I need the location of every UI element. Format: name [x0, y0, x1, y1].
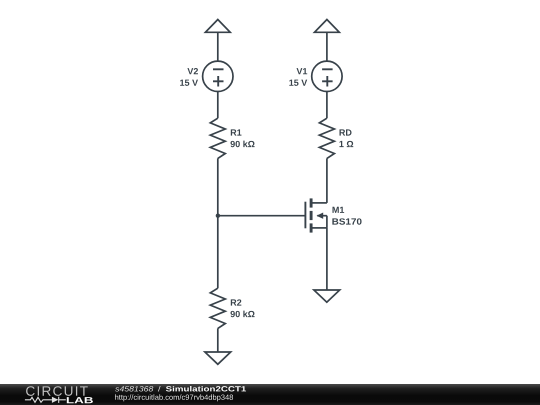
resistor R2	[210, 288, 225, 328]
logo CIRCUIT wordmark	[26, 386, 88, 396]
wire gate lead	[218, 215, 306, 217]
logo resistor-diode squiggle	[25, 397, 66, 403]
label R1	[231, 129, 242, 135]
label 90 kΩ (R1)	[231, 141, 255, 148]
label V2	[187, 68, 198, 74]
logo LAB wordmark	[67, 397, 93, 403]
wire RD to drain	[326, 158, 328, 203]
footer bar	[0, 384, 540, 405]
power V+ arrow (right)	[315, 20, 340, 33]
voltage source V2	[203, 61, 233, 91]
label 15 V (V1)	[289, 80, 307, 86]
label RD	[340, 129, 352, 135]
transistor M1 (NMOS)	[305, 198, 327, 232]
label 90 kΩ (R2)	[231, 311, 255, 318]
wire V2 to R1	[217, 92, 219, 118]
footer separator slash	[158, 386, 161, 392]
footer user id s4581368	[115, 386, 153, 391]
ground (right)	[314, 290, 340, 302]
wire arrow to V2	[217, 32, 219, 61]
label BS170	[332, 218, 361, 224]
wire R1 to R2 through node	[217, 158, 219, 288]
node junction dot	[216, 214, 220, 218]
wire source to ground	[326, 228, 328, 290]
wire arrow to V1	[326, 32, 328, 61]
label M1	[333, 207, 345, 213]
resistor RD	[319, 118, 334, 158]
ground (left)	[205, 352, 231, 364]
voltage source V1	[312, 61, 342, 91]
label 1 Ω (RD)	[339, 141, 353, 147]
footer url	[115, 394, 233, 401]
resistor R1	[210, 118, 225, 158]
label R2	[231, 299, 242, 305]
power V+ arrow (left)	[205, 20, 230, 33]
label V1	[297, 68, 308, 74]
wire R2 to ground	[217, 328, 219, 352]
label 15 V (V2)	[180, 80, 198, 86]
wire V1 to RD	[326, 92, 328, 118]
footer title Simulation2CCT1	[166, 386, 246, 392]
